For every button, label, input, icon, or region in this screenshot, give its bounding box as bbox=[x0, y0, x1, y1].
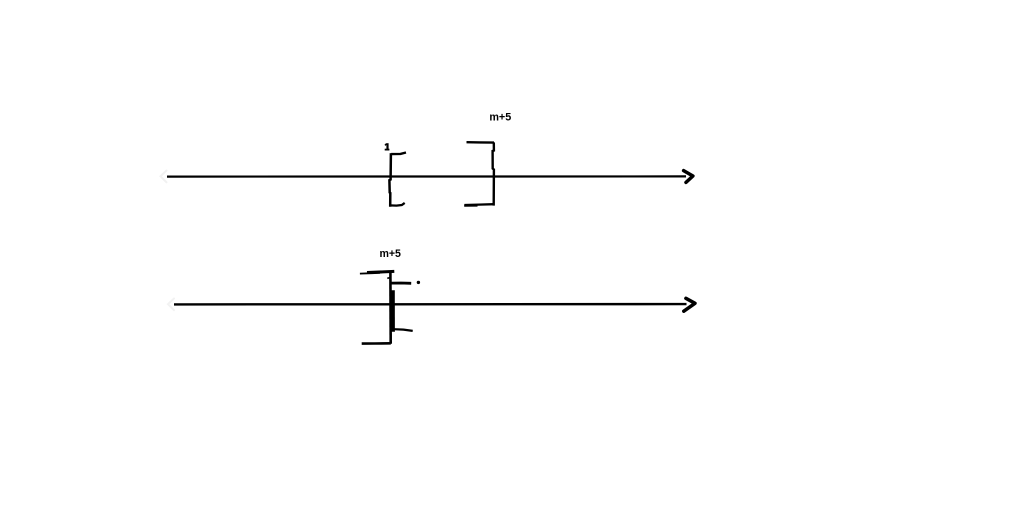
number line 1 (axis) bbox=[167, 175, 686, 177]
svg-text:m+5: m+5 bbox=[379, 248, 401, 260]
arrowhead at right end of line 1 bbox=[684, 171, 693, 183]
left bracket [ at 1 on line 1 bbox=[389, 153, 406, 207]
arrowhead at right end of line 2 bbox=[684, 298, 695, 311]
right bracket ] at m+5 on line 1 bbox=[464, 142, 494, 206]
outer right bracket ] at m+5 on line 2 bbox=[360, 271, 394, 344]
ghost erased arrowhead at left end of line 1 bbox=[161, 171, 167, 183]
ghost erased arrowhead at left end of line 2 bbox=[168, 299, 174, 311]
label 1 (tick value on line 1) bbox=[385, 143, 390, 149]
svg-text:m+5: m+5 bbox=[489, 111, 511, 123]
stray dot right of bracket on line 2 bbox=[417, 281, 420, 284]
inner left bracket [ at m+5 on line 2 (overlapping thick stroke) bbox=[391, 283, 412, 332]
number line 2 (axis) bbox=[174, 303, 687, 306]
